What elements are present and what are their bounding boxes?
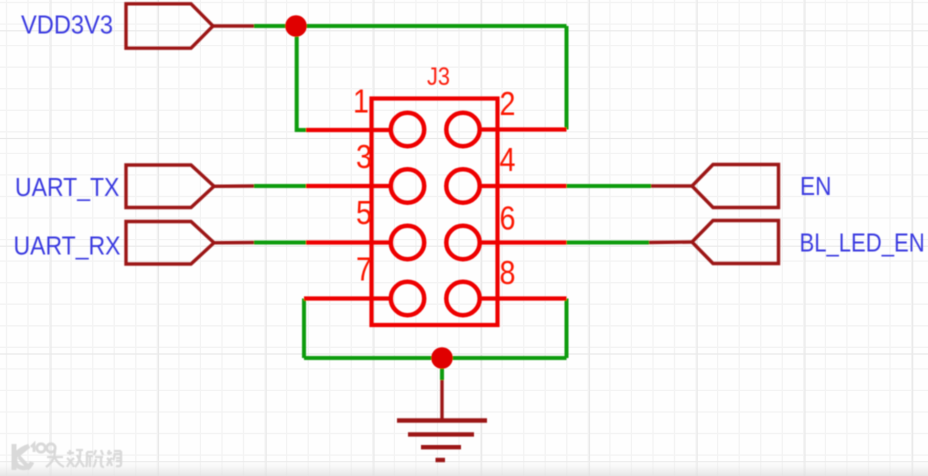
svg-text:BL_LED_EN: BL_LED_EN	[800, 229, 925, 258]
wire UART_TX to pin3	[254, 184, 306, 188]
port UART_RX symbol	[126, 222, 214, 265]
watermark logo K100	[14, 444, 55, 470]
wire pin6 to BL_LED_EN	[567, 241, 650, 245]
port BL_LED_EN lead	[649, 240, 692, 244]
pin 2 stub	[479, 127, 567, 131]
pin 5 stub	[306, 240, 390, 244]
ground symbol	[397, 421, 487, 461]
wire right vertical to pin2	[565, 26, 569, 130]
port EN lead	[651, 184, 692, 187]
pin 3 stub	[306, 184, 390, 188]
port UART_TX lead	[214, 184, 254, 188]
pin 5 circle	[391, 226, 424, 259]
svg-text:8: 8	[500, 254, 516, 291]
svg-text:EN: EN	[800, 173, 831, 202]
svg-text:4: 4	[500, 141, 516, 178]
svg-text:UART_TX: UART_TX	[15, 174, 119, 203]
pin 4 circle	[446, 169, 479, 202]
pin 6 circle	[446, 226, 479, 259]
port VDD3V3 lead	[213, 24, 254, 27]
junction dot top (VDD3V3 net)	[285, 15, 307, 37]
connector J3 body	[372, 99, 498, 326]
ground lead	[440, 380, 443, 419]
wire bottom horizontal net	[304, 356, 567, 360]
svg-text:1: 1	[353, 83, 369, 120]
wire pin8 down to bottom net	[565, 299, 569, 359]
pin 1 stub	[306, 128, 390, 132]
svg-text:2: 2	[500, 85, 516, 122]
pin 8 stub	[479, 296, 567, 300]
pin 8 circle	[446, 282, 479, 315]
junction dot bottom (GND net)	[431, 347, 453, 369]
pin 7 stub	[304, 296, 390, 300]
pin 3 circle	[391, 169, 424, 202]
watermark text 大数跨境	[46, 450, 122, 467]
port VDD3V3 symbol	[126, 4, 213, 48]
pin 1 circle	[391, 113, 424, 146]
svg-text:J3: J3	[427, 63, 450, 91]
port BL_LED_EN symbol	[692, 221, 779, 264]
svg-text:VDD3V3: VDD3V3	[21, 12, 113, 40]
wire stub junction to ground	[440, 358, 444, 380]
wire VDD3V3 top horizontal net	[254, 24, 567, 28]
pin 2 circle	[446, 113, 479, 146]
svg-text:3: 3	[356, 138, 372, 175]
svg-text:7: 7	[356, 251, 372, 288]
wire pin4 to EN	[567, 184, 652, 188]
svg-text:UART_RX: UART_RX	[14, 232, 121, 261]
port UART_TX symbol	[126, 165, 214, 208]
wire pin7 down to bottom net	[302, 299, 306, 359]
pin 4 stub	[479, 184, 567, 188]
port UART_RX lead	[214, 241, 254, 245]
pin 7 circle	[391, 282, 424, 315]
svg-text:6: 6	[500, 200, 516, 237]
pin 6 stub	[479, 240, 567, 244]
svg-text:5: 5	[356, 194, 372, 231]
port EN symbol	[692, 165, 779, 208]
wire UART_RX to pin5	[254, 241, 306, 245]
bottom edge band	[0, 0, 1, 1]
wire left vertical to pin1	[297, 26, 306, 130]
